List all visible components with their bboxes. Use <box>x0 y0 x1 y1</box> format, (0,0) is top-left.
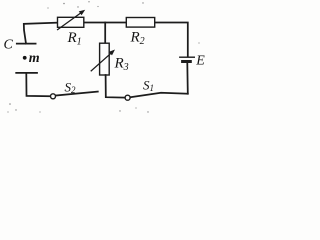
switch S2 pivot circle <box>51 94 56 99</box>
arrowhead R3 <box>109 48 117 56</box>
wire top-left to R1 <box>24 23 58 44</box>
switch S1 lever and wire to bottom-right corner <box>130 93 188 98</box>
capacitor C bottom plate <box>16 72 37 74</box>
scan noise speckles <box>7 1 199 113</box>
wire R2 to top-right corner <box>155 23 188 57</box>
resistor R2 <box>126 18 154 28</box>
resistor R3 <box>100 43 110 75</box>
node: junction top wire to R3 branch <box>104 23 106 44</box>
arrow of R3 <box>91 52 112 71</box>
switch S1 pivot circle <box>125 95 130 100</box>
wire battery to bottom-right corner <box>186 63 189 94</box>
svg-text:C: C <box>4 38 14 53</box>
battery E long plate <box>180 56 195 58</box>
battery E short thick plate <box>183 60 191 63</box>
arrowhead R1 <box>79 8 87 16</box>
svg-text:m: m <box>29 51 40 66</box>
svg-text:E: E <box>195 54 205 69</box>
capacitor C top plate <box>17 43 36 45</box>
particle m dot <box>23 56 27 60</box>
wire R3 bottom to bottom wire <box>106 75 125 98</box>
arrow of R1 <box>58 12 83 30</box>
resistor R1 <box>58 17 84 27</box>
wire R1 to R2 <box>84 22 126 24</box>
switch S2 lever <box>56 92 98 96</box>
wire bottom plate to bottom-left corner <box>26 73 50 96</box>
